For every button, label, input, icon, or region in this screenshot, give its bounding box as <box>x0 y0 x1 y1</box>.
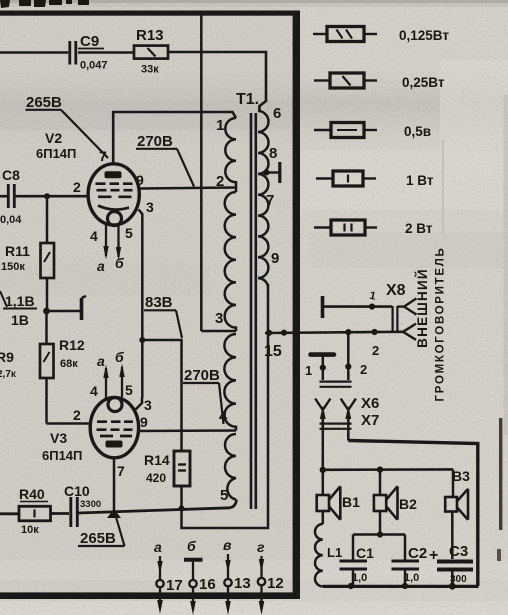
wire: V2 anode to T1 pin 1 <box>113 112 236 165</box>
capacitor C2 1,0 <box>404 535 407 561</box>
connector X6/X7 designators <box>361 395 379 429</box>
legend: 0.25W resistor symbol <box>314 73 377 88</box>
wire: X6 drop <box>322 356 325 380</box>
junction cathode node V2 <box>43 308 50 315</box>
speaker B1 <box>322 470 325 495</box>
capacitor C8 (input, cut at edge) <box>8 184 14 208</box>
X6 contact fork <box>315 399 330 410</box>
V3 grid pin 3 stub up <box>136 398 143 410</box>
V2 grid dashes <box>96 184 133 197</box>
X8 jack sleeve <box>393 306 398 332</box>
wire: return loop under T1 <box>182 284 269 528</box>
resistor R13 33k <box>134 46 168 59</box>
wire: cathode/B+ bottom rail <box>0 512 19 515</box>
resistor R40 10k <box>19 506 51 521</box>
wire: output line to external speaker (15) <box>265 332 403 333</box>
legend: 0.5W resistor symbol <box>314 123 377 138</box>
wire: cathode node to terminal bar <box>47 310 81 313</box>
wire: V2 g2 (pin 9) to T1 pin 2 <box>140 188 237 189</box>
capacitor C9 <box>70 41 76 65</box>
voltage label 270V (to T1 pin2 wire) <box>137 133 173 150</box>
inductor L1 <box>322 511 325 524</box>
page edge streak right <box>499 418 502 530</box>
junction grid node <box>44 193 50 199</box>
V2 heater pins 4,5 with arrows to а,б <box>106 224 119 257</box>
terminal bar (to bias) <box>80 298 84 320</box>
resistor R12 <box>45 311 48 344</box>
transformer T1 core <box>251 113 256 509</box>
wire: R12 to V3 grid pin 2 <box>47 422 92 425</box>
wire: V2 cathode rail down to V3 pin 3 <box>141 221 144 398</box>
capacitor C10 3300 <box>71 497 78 527</box>
wire: X8 pin 1 branch <box>324 305 392 308</box>
schematic block top border <box>0 11 299 16</box>
tube V3 envelope <box>90 397 138 457</box>
capacitor C1 1,0 <box>352 535 355 561</box>
legend: 1W resistor symbol <box>316 171 376 186</box>
voltage label 265V (V2 anode) <box>26 94 62 111</box>
X6/X7 terminal bar pin 1 <box>311 352 335 357</box>
page crease right <box>442 140 444 235</box>
voltage label 270V (lower) <box>184 367 220 384</box>
wire: X7 drop from output line <box>347 332 350 380</box>
V3 heater loop <box>108 398 122 412</box>
V3 anode plate <box>106 441 123 448</box>
V2 cathode <box>98 206 129 210</box>
X8 contact fork pin 1 <box>397 298 416 314</box>
X6/X7 jack sleeve upper <box>320 382 352 387</box>
wire: screen-supply line through C9/R13 to T1 pin 6 <box>0 51 68 54</box>
T1 secondary pin labels <box>266 105 281 267</box>
junction R14 on rail <box>179 506 185 512</box>
schematic block right border <box>293 11 300 599</box>
capacitor C3 300 (electrolytic) <box>451 512 454 560</box>
V3 anode pin 7 lead <box>113 458 116 514</box>
legend: 0.125W resistor symbol <box>313 27 377 42</box>
wire: V3 pin 9 to T1 pin 4 <box>137 429 236 432</box>
V3 heater pins 4,5 with arrows to а,б <box>106 367 122 398</box>
wire: T1 pin 3 tap <box>201 330 236 333</box>
tube V3 designator <box>42 430 82 463</box>
X7 contact fork <box>341 399 356 410</box>
schematic block bottom border <box>0 592 300 599</box>
X8 pin 1 terminal bar <box>321 296 325 318</box>
X6 plug arrow <box>322 414 325 470</box>
X6/X7 jack sleeve lower <box>320 424 352 429</box>
T1 secondary winding (6-8-7-9) <box>258 111 269 278</box>
T1 primary winding (pins 1-2-3-4-5) <box>224 118 236 500</box>
voltage label 83V <box>145 294 173 311</box>
T1 secondary bottom exit <box>258 278 268 286</box>
wire: X7 to speaker net top right <box>348 441 478 587</box>
legend: 2W resistor symbol <box>314 220 377 235</box>
wire: speaker net bottom rail <box>323 585 479 588</box>
X8 contact fork pin 2 <box>403 324 416 340</box>
junction V3 anode on rail <box>107 509 121 518</box>
cut-off title text top-left <box>0 0 89 8</box>
V2 heater loop <box>108 212 122 226</box>
T1 secondary tap 8-7 with stub <box>264 170 270 176</box>
tube V2 envelope <box>88 164 139 225</box>
V2 anode plate <box>105 171 122 178</box>
wire: 83V node over to R14 rail <box>142 340 181 451</box>
wire: C8 to V2 grid pin 2 <box>0 195 7 198</box>
wire: long vertical rail to T1 pin 3 <box>200 15 203 331</box>
wire: speaker common top <box>323 468 453 471</box>
V2 cathode pin 3 stub <box>139 210 143 222</box>
voltage label 1,1V / 1V <box>5 293 35 328</box>
junction 83V node <box>139 337 145 343</box>
X7 plug arrow <box>347 414 350 441</box>
speaker B2 <box>379 470 382 495</box>
V3 grid dashes <box>97 422 134 436</box>
resistor R9 (cut at edge) label <box>0 349 17 380</box>
wire: B2 to C1/C2 bracket <box>379 511 382 534</box>
speaker B3 <box>452 469 455 497</box>
voltage label 265V (lower) <box>80 530 116 547</box>
tube V2 designator <box>36 130 76 161</box>
resistor R14 420 <box>174 451 190 486</box>
resistor R11 150k <box>46 196 49 243</box>
